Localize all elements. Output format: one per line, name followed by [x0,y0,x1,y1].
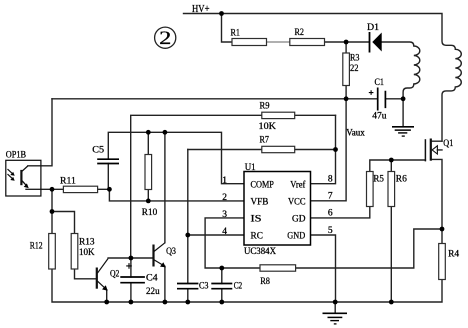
svg-text:VCC: VCC [288,198,306,208]
svg-text:47u: 47u [372,111,387,121]
svg-text:R4: R4 [448,249,459,259]
svg-text:R5: R5 [373,175,384,185]
svg-text:5: 5 [328,226,333,236]
svg-text:C3: C3 [199,281,209,291]
svg-text:3: 3 [222,210,227,220]
svg-text:2: 2 [222,193,227,203]
svg-text:R11: R11 [60,177,76,187]
svg-text:Vref: Vref [290,179,306,190]
svg-text:R8: R8 [260,277,270,287]
svg-text:Q1: Q1 [443,139,453,149]
svg-text:1: 1 [222,176,227,186]
svg-text:C2: C2 [234,281,243,291]
svg-text:Q2: Q2 [110,269,120,279]
svg-text:C4: C4 [146,274,158,284]
svg-text:R1: R1 [231,29,241,39]
svg-text:R12: R12 [30,242,43,252]
svg-text:8: 8 [328,175,333,185]
svg-text:R9: R9 [260,102,270,112]
svg-text:22u: 22u [146,287,160,297]
svg-text:R13: R13 [79,237,95,247]
svg-text:C1: C1 [375,78,385,88]
svg-text:GND: GND [287,232,305,242]
svg-text:7: 7 [328,192,333,202]
svg-text:OP1B: OP1B [6,150,26,160]
svg-text:6: 6 [328,209,333,219]
svg-text:22: 22 [350,64,359,74]
svg-text:UC384X: UC384X [244,247,276,257]
svg-text:HV+: HV+ [192,4,210,15]
svg-text:Vaux: Vaux [346,127,365,137]
svg-text:D1: D1 [367,23,379,33]
svg-text:R7: R7 [260,135,270,145]
svg-text:10K: 10K [259,122,277,132]
svg-text:U1: U1 [245,163,256,173]
svg-text:2: 2 [159,28,171,49]
svg-text:COMP: COMP [251,180,274,190]
svg-text:C5: C5 [92,145,104,155]
svg-text:Q3: Q3 [166,247,176,257]
svg-text:10K: 10K [79,248,95,258]
svg-text:VFB: VFB [251,198,269,208]
svg-text:IS: IS [251,215,262,225]
svg-text:R10: R10 [142,208,158,218]
svg-text:R2: R2 [295,28,305,38]
svg-text:GD: GD [292,215,306,225]
svg-text:R6: R6 [396,175,407,185]
svg-text:R3: R3 [350,54,360,64]
svg-text:RC: RC [251,232,263,242]
svg-text:4: 4 [222,227,227,237]
